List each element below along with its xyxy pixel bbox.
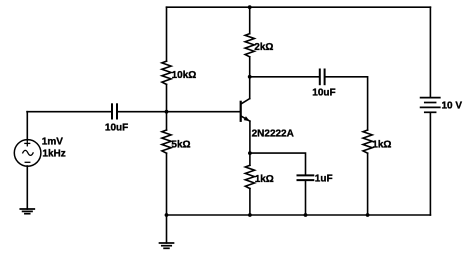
svg-text:2N2222A: 2N2222A xyxy=(252,129,294,140)
ground mid xyxy=(160,243,174,248)
wire 10k bottom to base node xyxy=(166,84,168,111)
wire top rail xyxy=(167,6,431,8)
svg-text:1mV: 1mV xyxy=(42,136,63,147)
node collector junction xyxy=(248,75,252,79)
node bypass-bottom junction xyxy=(304,213,308,217)
wire bypass cap to bottom xyxy=(305,181,307,215)
node emitter junction xyxy=(248,151,252,155)
resistor R5 1kΩ emitter xyxy=(249,153,251,165)
svg-text:1kHz: 1kHz xyxy=(42,148,65,159)
wire base xyxy=(118,111,241,113)
svg-text:5kΩ: 5kΩ xyxy=(171,140,190,151)
ground source xyxy=(20,209,34,214)
wire right rail lower xyxy=(429,112,431,215)
svg-text:10uF: 10uF xyxy=(105,123,128,134)
wire emitter down xyxy=(249,121,251,153)
capacitor C3 1uF bypass xyxy=(298,175,314,180)
svg-text:2kΩ: 2kΩ xyxy=(254,42,273,53)
wire source to ground xyxy=(26,166,28,209)
capacitor C2 10uF output xyxy=(320,70,325,85)
capacitor C1 10uF input xyxy=(112,104,117,118)
resistor R3 2kΩ xyxy=(245,34,254,57)
wire input left segment xyxy=(27,111,111,113)
AC source V1 xyxy=(26,112,28,140)
svg-text:10kΩ: 10kΩ xyxy=(172,70,197,81)
svg-text:10 V: 10 V xyxy=(442,101,463,112)
node base junction xyxy=(165,110,169,114)
transistor Q1 2N2222A xyxy=(241,99,294,140)
node bottom-left junction xyxy=(165,213,169,217)
wire collector node to output cap xyxy=(250,76,319,78)
wire left branch upper xyxy=(166,7,168,61)
svg-text:1kΩ: 1kΩ xyxy=(372,139,391,150)
node emitter-bottom junction xyxy=(248,213,252,217)
wire ground stem mid xyxy=(166,215,168,243)
node load-bottom junction xyxy=(366,213,370,217)
wire emitter node to bypass cap xyxy=(250,153,306,174)
resistor R2 5kΩ xyxy=(162,130,171,153)
svg-text:10uF: 10uF xyxy=(312,87,335,98)
svg-text:1uF: 1uF xyxy=(315,174,333,185)
wire right rail upper xyxy=(429,7,431,97)
wire output cap to load xyxy=(326,77,368,130)
wire collector branch top xyxy=(249,7,251,33)
wire base node down xyxy=(166,112,168,130)
resistor R1 10kΩ xyxy=(162,61,171,84)
wire bottom rail xyxy=(167,214,431,216)
node top junction xyxy=(248,5,252,9)
svg-text:1kΩ: 1kΩ xyxy=(255,174,274,185)
wire load to bottom xyxy=(367,153,369,215)
wire 5k bottom xyxy=(166,153,168,215)
resistor R4 1kΩ load xyxy=(363,130,372,153)
battery V2 10V xyxy=(421,98,440,113)
wire 2k to collector xyxy=(249,57,251,99)
